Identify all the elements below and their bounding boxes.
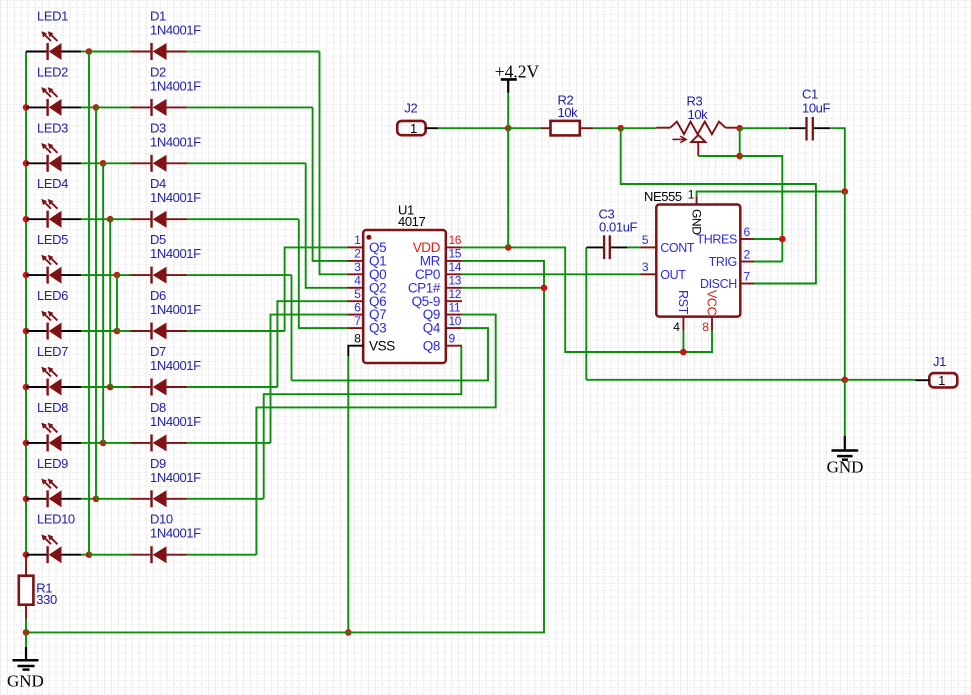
svg-text:12: 12 — [449, 287, 462, 301]
wire pairing LED1-LED10 — [88, 52, 90, 555]
wire D1 anode to column — [187, 51, 319, 53]
junction +4.2V/VDD — [505, 244, 512, 251]
LED LED6 — [26, 288, 81, 340]
svg-text:1N4001F: 1N4001F — [150, 470, 201, 485]
wire node to D9 — [96, 498, 131, 500]
wire node to D7 — [110, 386, 130, 388]
wire +4.2V down to VDD row — [507, 93, 509, 248]
svg-text:TRIG: TRIG — [709, 255, 737, 269]
connector J1 — [915, 354, 957, 388]
wire wiper to junction — [698, 155, 739, 157]
wire pairing LED2-LED9 — [95, 107, 97, 498]
svg-text:13: 13 — [449, 273, 462, 287]
junction node LED8/D8 — [100, 440, 107, 447]
junction node LED7/D7 — [107, 384, 114, 391]
svg-text:GND: GND — [690, 209, 704, 235]
svg-text:10uF: 10uF — [802, 101, 830, 116]
wire C3 left down to ground row — [585, 247, 587, 379]
junction node LED1/D1 — [86, 48, 93, 55]
wire node to D10 — [89, 554, 131, 556]
svg-text:LED1: LED1 — [37, 9, 68, 24]
NE555 pin 3 OUT — [641, 260, 687, 282]
LED LED5 — [26, 232, 81, 284]
wire U1 pin3 to diode column x=319.5 — [320, 52, 348, 275]
power +4.2V flag — [495, 61, 540, 92]
junction wiper node — [736, 153, 743, 160]
svg-text:LED4: LED4 — [37, 176, 68, 191]
resistor R2 10k — [541, 92, 593, 135]
svg-text:330: 330 — [36, 592, 57, 607]
diode D1 1N4001F — [131, 9, 202, 61]
wire U1 VSS pin8 to ground bus — [348, 346, 363, 633]
wire node to D5 — [117, 274, 131, 276]
junction R3 right terminal — [736, 125, 743, 132]
wire J2 to +4.2V node — [438, 127, 508, 129]
svg-text:D2: D2 — [150, 64, 166, 79]
wire D2 anode to column — [187, 106, 312, 108]
junction C1/GND net — [842, 188, 849, 195]
wire LED7 anode — [81, 386, 110, 388]
wire NE555 RST pin4 stub wire — [682, 331, 684, 352]
connector J2 — [397, 100, 438, 136]
wire pairing LED4-LED7 — [109, 219, 111, 387]
wire pairing LED3-LED8 — [102, 163, 104, 443]
wire U1 pin10 Q4 routing — [292, 328, 489, 380]
wire U1 pin6 to diode column x=270.5 — [271, 315, 348, 443]
diode D5 1N4001F — [131, 232, 202, 284]
svg-text:1N4001F: 1N4001F — [150, 302, 201, 317]
wire +4.2V node to R2 — [508, 127, 541, 129]
wire VDD pin16 to +4.2V and RST/VCC — [462, 247, 712, 352]
wire U1 pin13 CP1# to ground column — [462, 287, 544, 289]
wire node to D1 — [89, 51, 131, 53]
wire TRIG to tie column — [754, 261, 782, 263]
junction rail-LED2 — [23, 104, 30, 111]
diode D3 1N4001F — [131, 120, 202, 172]
svg-text:GND: GND — [7, 672, 44, 691]
wire U1 pin2 to diode column x=312.6 — [313, 107, 348, 261]
junction J2/+4.2V — [505, 125, 512, 132]
wire NE555 GND pin to ground column — [697, 192, 844, 197]
wire C1 right to ground column — [831, 128, 845, 191]
svg-text:D4: D4 — [150, 176, 166, 191]
wire U1 pin5 to diode column x=277.4 — [277, 301, 347, 387]
junction rail-LED6 — [23, 328, 30, 335]
wire DISCH to R2/R3 node — [621, 128, 816, 283]
junction node LED2/D2 — [93, 104, 100, 111]
svg-text:1: 1 — [688, 188, 695, 202]
svg-text:4: 4 — [354, 273, 361, 287]
wire node to D3 — [103, 162, 130, 164]
wire U1 pin4 to diode column x=305.7 — [306, 163, 348, 287]
svg-text:16: 16 — [449, 233, 462, 247]
wire ground row to J1 — [586, 379, 915, 381]
wire wiper node to THRES/TRIG column — [740, 156, 783, 262]
wire U1 pin7 to diode column x=298.8 — [299, 219, 348, 328]
svg-text:4017: 4017 — [398, 214, 425, 229]
LED LED4 — [26, 176, 81, 228]
svg-text:LED7: LED7 — [37, 344, 68, 359]
U1 pin 9 (Q8) — [423, 331, 462, 353]
svg-text:1N4001F: 1N4001F — [150, 358, 201, 373]
U1 pin 16 (VDD) — [413, 233, 462, 255]
NE555 pin 4 RST (bottom) — [673, 290, 690, 334]
wire U1 pin1 to diode column x=284.6 — [285, 247, 348, 331]
svg-text:9: 9 — [449, 331, 456, 345]
svg-text:6: 6 — [744, 225, 751, 239]
svg-text:D1: D1 — [150, 9, 166, 24]
wire node to D4 — [110, 218, 130, 220]
svg-text:VSS: VSS — [369, 338, 395, 353]
junction CP1#/MR ground column — [541, 285, 548, 292]
wire D10 anode to column — [187, 554, 256, 556]
diode D2 1N4001F — [131, 64, 202, 116]
svg-text:1: 1 — [354, 233, 361, 247]
U1 pin 12 (Q5-9) — [412, 287, 462, 309]
wire D4 anode to column — [187, 218, 298, 220]
ground GND right — [827, 380, 864, 477]
wire node to D8 — [103, 442, 130, 444]
svg-text:1N4001F: 1N4001F — [150, 526, 201, 541]
svg-text:D7: D7 — [150, 344, 166, 359]
svg-text:8: 8 — [702, 320, 709, 334]
LED LED1 — [26, 9, 81, 61]
svg-text:LED6: LED6 — [37, 288, 68, 303]
svg-text:LED2: LED2 — [37, 64, 68, 79]
wire LED1 anode — [81, 51, 89, 53]
NE555 pin 8 VCC (bottom) — [702, 290, 718, 334]
junction RST/VCC rail — [680, 349, 687, 356]
svg-text:14: 14 — [449, 260, 462, 274]
svg-text:VCC: VCC — [705, 290, 719, 316]
svg-text:D9: D9 — [150, 456, 166, 471]
wire C3 to CONT — [627, 246, 641, 248]
wire R3 node to C1 — [740, 127, 789, 129]
svg-text:2: 2 — [744, 247, 751, 261]
wire U1 pin9 Q8 routing to D9 — [264, 346, 462, 499]
wire ground bus bottom — [26, 288, 544, 633]
U1 pin 7 (Q3) — [348, 314, 387, 336]
svg-text:THRES: THRES — [697, 233, 737, 247]
svg-text:1N4001F: 1N4001F — [150, 23, 201, 38]
LED LED10 — [26, 512, 81, 564]
diode D4 1N4001F — [131, 176, 202, 228]
LED LED8 — [26, 400, 81, 452]
wire LED5 anode — [81, 274, 117, 276]
svg-text:7: 7 — [744, 269, 751, 283]
svg-text:2: 2 — [354, 247, 361, 261]
junction node LED4/D4 — [107, 216, 114, 223]
svg-text:15: 15 — [449, 247, 462, 261]
wire THRES to tie column — [754, 238, 782, 240]
U1 pin 15 (MR) — [420, 247, 462, 269]
diode D9 1N4001F — [131, 456, 202, 508]
svg-text:LED9: LED9 — [37, 456, 68, 471]
svg-text:CONT: CONT — [660, 241, 695, 255]
svg-text:1N4001F: 1N4001F — [150, 414, 201, 429]
svg-text:10: 10 — [449, 314, 462, 328]
wire U1 pin14 CP0 to NE555 OUT — [462, 273, 641, 275]
svg-text:3: 3 — [642, 260, 649, 274]
wire D5 anode to column — [187, 274, 291, 276]
wire LED4 anode — [81, 218, 110, 220]
U1 pin 1 (Q5) — [348, 233, 387, 255]
diode D7 1N4001F — [131, 344, 202, 396]
junction node LED3/D3 — [100, 160, 107, 167]
junction node LED6/D6 — [114, 328, 121, 335]
U1 pin 6 (Q7) — [348, 300, 387, 322]
wire U1 pin11 Q9 routing to D10 — [256, 315, 495, 555]
junction rail-LED7 — [23, 384, 30, 391]
U1 pin 11 (Q9) — [423, 300, 462, 322]
LED LED9 — [26, 456, 81, 508]
svg-text:D3: D3 — [150, 120, 166, 135]
diode D6 1N4001F — [131, 288, 202, 340]
U1 pin 4 (Q2) — [348, 273, 387, 295]
svg-text:D6: D6 — [150, 288, 166, 303]
potentiometer R3 10k — [656, 94, 740, 157]
NE555 pin 2 TRIG — [709, 247, 754, 269]
resistor R1 330 — [19, 555, 57, 619]
wire pairing LED5-LED6 — [116, 275, 118, 331]
junction rail-LED10 — [23, 551, 30, 558]
wire R2 to R3 node — [593, 127, 621, 129]
U1 pin 2 (Q1) — [348, 247, 387, 269]
wire node to D6 — [117, 330, 131, 332]
wire R3 terminal down to wiper — [739, 128, 741, 156]
svg-text:LED3: LED3 — [37, 120, 68, 135]
svg-text:LED10: LED10 — [37, 512, 75, 527]
svg-text:C1: C1 — [802, 86, 818, 101]
svg-text:7: 7 — [354, 314, 361, 328]
svg-text:1N4001F: 1N4001F — [150, 78, 201, 93]
svg-text:Q8: Q8 — [423, 338, 440, 353]
svg-text:8: 8 — [354, 331, 361, 345]
svg-text:LED5: LED5 — [37, 232, 68, 247]
wire LED cathode rail (left vertical bus) — [25, 52, 27, 555]
wire LED10 anode — [81, 554, 89, 556]
svg-text:NE555: NE555 — [644, 189, 682, 204]
capacitor C1 10uF — [789, 86, 831, 140]
wire R1 to ground bus — [25, 619, 27, 633]
svg-text:1N4001F: 1N4001F — [150, 246, 201, 261]
wire node to D2 — [96, 106, 131, 108]
U1 pin 5 (Q6) — [348, 287, 387, 309]
U1 pin 14 (CP0) — [415, 260, 462, 282]
svg-text:3: 3 — [354, 260, 361, 274]
wire D3 anode to column — [187, 162, 305, 164]
junction rail-LED4 — [23, 216, 30, 223]
wire LED3 anode — [81, 162, 103, 164]
wire LED2 anode — [81, 106, 96, 108]
svg-text:1N4001F: 1N4001F — [150, 190, 201, 205]
svg-text:D10: D10 — [150, 512, 173, 527]
svg-text:OUT: OUT — [660, 268, 686, 282]
wire D9 anode to column — [187, 498, 263, 500]
junction node LED9/D9 — [93, 496, 100, 503]
junction THRES/TRIG — [779, 236, 786, 243]
NE555 pin 1 GND (top) — [688, 188, 704, 236]
svg-text:5: 5 — [642, 233, 649, 247]
wire U1 pin15 MR to ground column — [462, 261, 544, 288]
svg-text:4: 4 — [673, 320, 680, 334]
wire D7 anode to column — [187, 386, 277, 388]
wire node to R3 — [621, 127, 657, 129]
U1 pin 10 (Q4) — [423, 314, 462, 336]
NE555 pin 5 CONT — [641, 233, 695, 255]
svg-text:D8: D8 — [150, 400, 166, 415]
wire D5 column down to Q4 line — [291, 275, 293, 380]
junction node LED5/D5 — [114, 272, 121, 279]
svg-text:1: 1 — [938, 373, 945, 388]
svg-text:5: 5 — [354, 287, 361, 301]
svg-text:10k: 10k — [558, 105, 579, 120]
diode D8 1N4001F — [131, 400, 202, 452]
wire LED8 anode — [81, 442, 103, 444]
svg-text:0.01uF: 0.01uF — [599, 220, 638, 235]
wire D6 anode to column — [187, 330, 284, 332]
svg-text:Q3: Q3 — [369, 321, 386, 336]
LED LED7 — [26, 344, 81, 396]
junction rail-LED3 — [23, 160, 30, 167]
svg-text:D5: D5 — [150, 232, 166, 247]
wire LED6 anode — [81, 330, 117, 332]
wire D8 anode to column — [187, 442, 270, 444]
diode D10 1N4001F — [131, 512, 202, 564]
U1 pin 3 (Q0) — [348, 260, 387, 282]
op IC U1 4017 body — [363, 203, 446, 364]
junction rail-LED5 — [23, 272, 30, 279]
U1 pin 13 (CP1#) — [408, 273, 462, 295]
svg-text:1: 1 — [410, 121, 417, 136]
svg-text:LED8: LED8 — [37, 400, 68, 415]
junction ground row/column — [842, 377, 849, 384]
ground GND bottom-left — [7, 632, 44, 690]
LED LED3 — [26, 120, 81, 172]
NE555 pin 7 DISCH — [700, 269, 754, 291]
svg-text:11: 11 — [449, 300, 461, 314]
svg-text:10k: 10k — [688, 107, 709, 122]
junction VSS/ground bus — [345, 629, 352, 636]
junction rail-LED8 — [23, 440, 30, 447]
timer IC U2 NE555 body — [644, 189, 740, 317]
LED LED2 — [26, 64, 81, 116]
wire LED9 anode — [81, 498, 96, 500]
svg-text:6: 6 — [354, 300, 361, 314]
svg-text:J1: J1 — [933, 354, 946, 369]
junction rail/ground bus — [23, 629, 30, 636]
svg-text:GND: GND — [827, 458, 864, 477]
wire ground column down — [844, 192, 846, 380]
U1 pin 8 (VSS) — [354, 331, 395, 353]
junction R2/R3/DISCH — [617, 125, 624, 132]
svg-text:DISCH: DISCH — [700, 277, 737, 291]
junction node LED10/D10 — [86, 551, 93, 558]
svg-text:Q4: Q4 — [423, 321, 441, 336]
svg-text:1N4001F: 1N4001F — [150, 134, 201, 149]
svg-text:RST: RST — [676, 290, 690, 315]
junction rail-LED9 — [23, 496, 30, 503]
svg-text:J2: J2 — [404, 100, 417, 115]
capacitor C3 0.01uF — [586, 206, 637, 259]
NE555 pin 6 THRES — [697, 225, 754, 247]
